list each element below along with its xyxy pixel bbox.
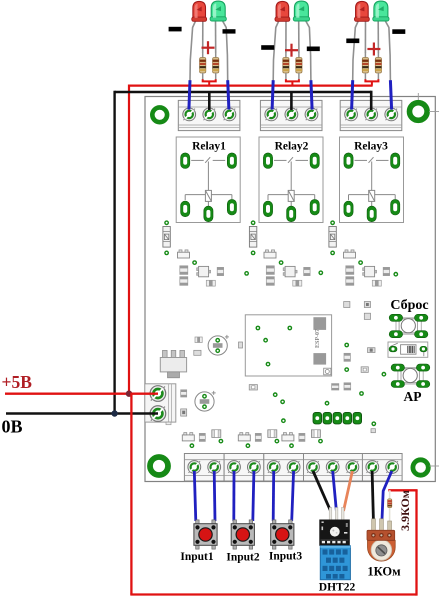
svg-text:Input3: Input3 — [269, 551, 302, 563]
wire: black to DHT pin1 — [313, 471, 331, 511]
wire: red left vertical from bus to +5V junction — [128, 85, 130, 394]
wire: red loop lower vertical — [130, 393, 132, 595]
bottom transistor cluster 1 — [182, 430, 223, 448]
wire: blue input1 right — [213, 471, 217, 521]
bottom terminal block DHT — [304, 454, 363, 482]
mounting hole top-right — [410, 93, 439, 120]
wire: blue input2 right — [253, 471, 254, 521]
wire: black left vertical from bus to 0V junction — [113, 91, 115, 414]
resistor 3.9K lead — [389, 490, 391, 521]
wire: red +5V feed to power terminal — [5, 393, 158, 395]
wire: blue input3 right — [292, 471, 294, 521]
relay U1 footprint Relay1 — [176, 137, 240, 223]
reset button footprint (Сброс) — [389, 298, 428, 338]
wire: blue input1 left — [194, 471, 196, 521]
polarity mark minus pair3 right — [392, 29, 405, 34]
wire: black stub to K2 middle terminal — [290, 92, 293, 110]
polarity mark plus pair2 — [285, 44, 298, 57]
potentiometer RV1 — [367, 519, 395, 561]
wire: black 0V top bus — [115, 91, 372, 94]
wire: black 0V feed to power terminal — [6, 412, 158, 414]
wire: red +5V top bus — [129, 84, 373, 86]
capacitor C2 footprint — [195, 391, 216, 411]
svg-text:Relay1: Relay1 — [192, 141, 226, 153]
relay output terminal block K1 — [178, 100, 240, 130]
LED pair 2 (red LED D3, green LED D4, resistors R3 R4) — [272, 1, 312, 109]
svg-text:+5В: +5В — [2, 372, 33, 392]
wire: orange to DHT pin3 — [344, 471, 353, 511]
programming header pads — [313, 412, 362, 424]
polarity mark minus pair1 right — [223, 29, 236, 33]
polarity mark minus pair1 left — [169, 27, 182, 32]
svg-text:Relay2: Relay2 — [275, 141, 309, 153]
wire: blue to pot pin2 — [382, 471, 392, 520]
svg-text:DHT22: DHT22 — [319, 582, 356, 594]
via dots mid board — [344, 343, 349, 348]
svg-text:ESP-07: ESP-07 — [315, 329, 321, 348]
PCB board outline — [145, 97, 435, 482]
voltage regulator VR1 footprint — [160, 350, 186, 377]
polarity mark minus pair2 left — [261, 45, 274, 50]
capacitor C1 footprint — [208, 335, 229, 355]
svg-text:0В: 0В — [2, 417, 23, 437]
polarity mark minus pair2 right — [307, 47, 320, 52]
wire: blue input3 left — [272, 471, 275, 521]
bottom terminal block input2 — [224, 454, 264, 482]
relay U2 footprint Relay2 — [259, 137, 323, 223]
push button S1 — [194, 520, 217, 549]
relay output terminal block K3 — [340, 100, 402, 130]
driver cluster channel 1 (diode, transistor Q1, SMD parts) — [163, 220, 224, 286]
wire: black stub to K3 middle terminal — [370, 91, 373, 110]
LED pair 3 (red LED D5, green LED D6, resistors R5 R6) — [352, 1, 392, 109]
bottom terminal block pot — [362, 454, 402, 482]
svg-text:Relay3: Relay3 — [354, 141, 388, 153]
wire: red loop top to 3.9K resistor — [388, 489, 417, 491]
power terminal block X1 (left edge) — [145, 384, 176, 425]
bottom terminal block input1 — [184, 454, 224, 482]
bottom transistor cluster 2 — [238, 430, 279, 448]
scattered SMD parts right of ESP module — [239, 302, 376, 391]
AP button footprint — [391, 364, 430, 404]
mounting hole bottom-right — [413, 460, 439, 475]
junction node +5V — [126, 391, 132, 397]
push button S2 — [231, 520, 254, 549]
junction node 0V — [111, 410, 117, 416]
polarity mark plus pair3 — [367, 43, 380, 56]
polarity mark plus pair1 — [202, 41, 215, 54]
svg-text:Input1: Input1 — [180, 551, 213, 563]
svg-text:1КОм: 1КОм — [367, 565, 401, 579]
via dots near clusters — [244, 271, 249, 276]
DHT22 sensor module — [319, 508, 350, 580]
push button S3 — [271, 520, 294, 549]
svg-text:Сброс: Сброс — [390, 298, 428, 313]
bottom transistor cluster 3 — [282, 430, 323, 448]
svg-text:Input2: Input2 — [226, 552, 259, 564]
relay output terminal block K2 — [260, 100, 322, 130]
svg-text:AP: AP — [404, 389, 422, 404]
mounting hole bottom-left — [150, 457, 168, 475]
wire: red loop right vertical — [415, 490, 417, 595]
LED pair 1 (red LED D1, green LED D2, resistors R1 R2) — [189, 1, 229, 109]
smd near right bottom — [371, 429, 375, 433]
driver cluster channel 2 — [249, 220, 310, 286]
polarity mark minus pair3 left — [346, 39, 359, 44]
wire: blue to DHT pin2 — [333, 471, 337, 511]
jumper footprint J1 — [388, 342, 428, 357]
wire: black stub to K1 middle terminal — [208, 92, 211, 110]
wire: black to pot pin1 — [372, 471, 373, 520]
via near AP — [382, 372, 387, 377]
ESP-07 module footprint — [245, 315, 331, 376]
bottom terminal block input3 — [264, 454, 304, 482]
wire: blue input2 left — [232, 471, 235, 521]
relay U3 footprint Relay3 — [340, 137, 404, 223]
mounting hole top-left — [152, 107, 167, 122]
driver cluster channel 3 — [329, 220, 390, 286]
svg-text:3.9КОм: 3.9КОм — [398, 490, 412, 531]
resistor R4 3.9K — [388, 499, 392, 508]
wire: red loop bottom — [130, 593, 416, 595]
smd parts near regulator — [181, 337, 203, 416]
